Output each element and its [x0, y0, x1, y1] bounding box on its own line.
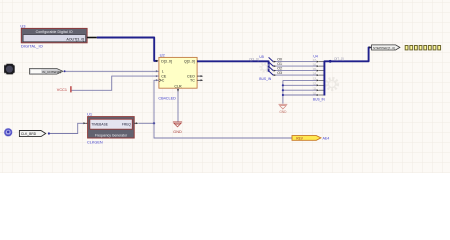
bus tap O3 — [269, 71, 274, 75]
junction — [282, 94, 284, 96]
output pad REV — [292, 136, 321, 141]
pin stub TC — [197, 79, 203, 81]
svg-text:U4: U4 — [313, 55, 318, 59]
macro U1 Frequency Generator — [88, 117, 135, 138]
svg-text:L: L — [162, 70, 164, 74]
counter U2 body — [159, 57, 197, 88]
pin arrow Q output — [197, 60, 200, 62]
svg-text:O0: O0 — [277, 58, 282, 62]
svg-text:GND: GND — [173, 129, 182, 134]
svg-text:Q[3..0]: Q[3..0] — [249, 57, 259, 61]
bus tap O0 — [269, 57, 274, 61]
junction at CLK_BRD — [48, 132, 50, 134]
wire O3 — [273, 71, 316, 76]
wire VCC1 to U2.CE — [72, 76, 159, 90]
bus wire Q to splitter — [197, 61, 269, 72]
pin arrow L — [156, 70, 159, 72]
svg-text:O1: O1 — [277, 62, 282, 66]
wire O0 — [273, 58, 316, 63]
svg-text:AE4: AE4 — [323, 137, 330, 141]
schematic sheet background grid — [0, 0, 450, 173]
svg-text:C: C — [162, 79, 165, 83]
svg-text:GND: GND — [279, 110, 287, 114]
junction at port — [64, 70, 66, 72]
wire clock node up to U2.C — [154, 80, 159, 123]
svg-text:STEPPER[7..0]: STEPPER[7..0] — [373, 46, 395, 50]
port IN_CNTEN — [30, 69, 63, 75]
svg-text:CLR: CLR — [174, 84, 182, 88]
svg-text:O3: O3 — [277, 71, 282, 75]
wire CLK_BRD to U1.TIMEBASE — [50, 123, 83, 133]
ground symbol GND2 — [279, 104, 288, 114]
svg-text:VCC1: VCC1 — [57, 88, 67, 92]
bus wire AOUT to U2.D — [97, 38, 158, 61]
svg-text:CLK_BRD: CLK_BRD — [21, 132, 37, 136]
pin stub FREQ — [134, 122, 138, 124]
svg-text:CLKGEN: CLKGEN — [87, 141, 103, 145]
svg-text:IN_CNTEN[0]: IN_CNTEN[0] — [42, 70, 61, 74]
svg-text:FREQ: FREQ — [122, 123, 132, 127]
bus junction — [329, 60, 332, 63]
svg-text:DIGITAL_IO: DIGITAL_IO — [21, 43, 43, 48]
svg-text:Configurable Digital IO: Configurable Digital IO — [36, 30, 73, 34]
bus tap O1 — [269, 62, 274, 66]
bus spine U4 — [324, 47, 370, 95]
junction — [282, 89, 284, 91]
clock node junction — [153, 122, 155, 124]
pin arrow into D — [156, 60, 159, 62]
wire clock node to output pad — [154, 123, 292, 138]
pin arrow C — [156, 79, 159, 81]
pin stub TIMEBASE — [85, 122, 87, 124]
wire CLR to ground — [177, 88, 179, 121]
svg-text:O[7..0]: O[7..0] — [334, 57, 344, 61]
gear watermark U4 — [326, 78, 337, 89]
annotation icon (black camera marker) — [4, 64, 15, 75]
svg-text:U2: U2 — [160, 53, 166, 58]
annotation icon (blue badge) — [4, 128, 12, 136]
svg-text:D[3..0]: D[3..0] — [161, 60, 172, 64]
gear watermark U5 — [261, 64, 269, 72]
port CLK_BRD — [19, 131, 45, 137]
pin stub CEO — [197, 75, 203, 77]
wire FREQ to clock node — [138, 122, 154, 124]
wire tied low 4 — [283, 94, 317, 96]
grounded spare inputs: vertical stub — [282, 80, 284, 103]
svg-text:CB4CLED: CB4CLED — [158, 96, 176, 100]
bus tap O2 — [269, 66, 274, 70]
svg-text:U3: U3 — [20, 23, 26, 28]
power VCC1 — [57, 86, 71, 92]
svg-text:TIMEBASE: TIMEBASE — [91, 123, 108, 127]
wire O2 — [273, 67, 316, 72]
macro U3 Configurable Digital IO — [21, 28, 87, 42]
svg-text:BUS_IN: BUS_IN — [313, 98, 326, 102]
wire O1 — [273, 62, 316, 67]
LED pad row — [405, 45, 441, 50]
svg-text:TC: TC — [190, 79, 195, 83]
pin arrow CE — [156, 75, 159, 77]
svg-text:O2: O2 — [277, 67, 282, 71]
junction — [282, 84, 284, 86]
svg-text:Frequency Generator: Frequency Generator — [95, 133, 128, 137]
svg-text:U1: U1 — [87, 112, 93, 117]
pin arrow TIMEBASE — [83, 122, 86, 124]
wire tied low 3 — [283, 89, 317, 91]
svg-text:AOUT[3..0]: AOUT[3..0] — [66, 37, 84, 41]
wire tied low 1 — [283, 79, 317, 81]
wire port to U2.L — [66, 70, 159, 72]
wire tied low 2 — [283, 84, 317, 86]
ground symbol GND1 — [173, 122, 182, 134]
pin stub AOUT — [87, 37, 97, 39]
pin arrow CLR — [177, 89, 179, 92]
svg-text:Q[3..0]: Q[3..0] — [184, 60, 195, 64]
bus combiner U4 pins — [313, 60, 324, 96]
svg-text:U5: U5 — [259, 55, 264, 59]
svg-text:BUS_IN: BUS_IN — [259, 77, 272, 81]
port STEPPER[7..0] — [369, 45, 400, 50]
svg-text:REV: REV — [296, 136, 303, 140]
